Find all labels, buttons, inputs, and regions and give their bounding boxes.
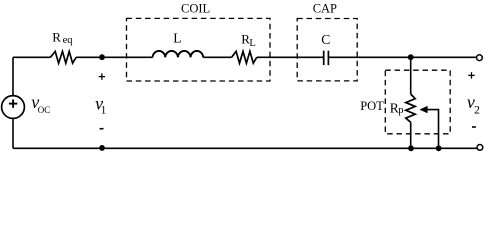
svg-text:C: C (321, 32, 330, 47)
svg-text:L: L (249, 38, 255, 49)
svg-text:OC: OC (38, 105, 51, 115)
svg-text:POT: POT (360, 99, 384, 113)
svg-text:2: 2 (474, 105, 480, 117)
svg-text:R: R (52, 30, 61, 45)
svg-text:COIL: COIL (181, 2, 210, 16)
svg-text:CAP: CAP (313, 1, 337, 15)
svg-text:L: L (173, 30, 181, 45)
svg-text:1: 1 (101, 105, 107, 117)
svg-text:eq: eq (63, 35, 74, 46)
svg-text:p: p (398, 105, 403, 116)
